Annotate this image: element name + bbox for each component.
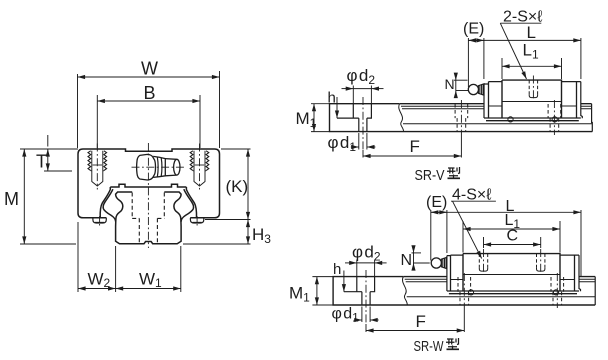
svg-text:2-S×ℓ: 2-S×ℓ [503, 9, 542, 26]
block cavity top [110, 184, 186, 187]
dim W2 W1 [78, 222, 181, 292]
svg-text:h: h [333, 261, 341, 278]
end caps SR-W [451, 255, 575, 291]
groove lip curve right [181, 189, 194, 222]
dim M [20, 149, 78, 244]
dim E and L shared line W [431, 210, 581, 276]
rail side lower groove line W [407, 296, 596, 298]
dim N (SR-V) [454, 74, 468, 98]
dim h (SR-V) [336, 97, 338, 118]
rail counterbore section [337, 104, 371, 118]
seal plug bucket right [190, 218, 203, 223]
svg-text:SR-W: SR-W [414, 338, 445, 355]
dim L1 [502, 58, 562, 79]
end seals SR-W [447, 255, 581, 291]
dim T [44, 135, 72, 171]
svg-text:φd2: φd2 [352, 243, 381, 264]
dim H3 [183, 220, 251, 245]
rail cross-section [116, 192, 182, 244]
svg-text:φd2: φd2 [347, 66, 376, 87]
dim E and L shared line [468, 38, 581, 87]
rail sectioned part W [333, 277, 595, 305]
svg-text:L: L [527, 23, 536, 42]
svg-text:C: C [507, 228, 519, 245]
svg-text:W1: W1 [139, 270, 162, 291]
dim F (SR-W) [366, 305, 464, 332]
rail side view top lines [400, 103, 592, 105]
hidden rail bolt hole 1 W [458, 277, 471, 305]
svg-text:B: B [144, 83, 156, 103]
svg-text:H3: H3 [252, 225, 271, 246]
dim phi-d1 (SR-W) [354, 307, 379, 323]
retainer screws [508, 117, 513, 122]
block outline [78, 149, 220, 218]
dim phi-d2 (SR-W) [345, 260, 387, 277]
hidden rail bolt hole 2 W [551, 277, 564, 305]
tapped hole S2 on block top W [537, 249, 545, 274]
rail right end W [594, 277, 596, 305]
svg-text:N: N [401, 252, 413, 269]
retainer screws W [468, 290, 473, 295]
rail break curve [399, 104, 404, 132]
svg-text:W: W [141, 59, 158, 79]
rail bolt hole hidden (front) [132, 193, 164, 244]
dim N (SR-W) [412, 246, 430, 269]
rail side lower groove line [403, 123, 592, 125]
leg inner boundary left [100, 187, 110, 218]
hidden rail bolt hole 2 [548, 104, 561, 131]
dim phi-d2 (SR-V) [342, 86, 384, 104]
svg-text:L1: L1 [523, 41, 539, 62]
block body SR-V [502, 80, 562, 118]
leader 2-Sxl [500, 23, 541, 79]
svg-text:φd1: φd1 [332, 306, 360, 325]
dim F (SR-V) [363, 132, 461, 158]
seal plug bucket left [93, 218, 106, 223]
leg inner boundary right [186, 187, 196, 218]
svg-text:F: F [416, 312, 426, 331]
kanji KATA (type) for SR-V [447, 167, 460, 178]
svg-text:h: h [328, 89, 336, 106]
dim B [97, 95, 200, 148]
groove lip curve left [103, 189, 116, 222]
svg-text:M1: M1 [296, 109, 317, 130]
dim h (SR-W) [343, 271, 345, 292]
tapped hole S on block top [529, 76, 537, 101]
block body SR-W [463, 254, 560, 291]
svg-text:W2: W2 [88, 270, 111, 291]
grease nipple SR-V [468, 84, 478, 94]
dim L1 W [463, 221, 560, 253]
tapped hole S1 on block top W [479, 249, 487, 274]
SR-V labels [296, 9, 543, 185]
svg-text:SR-V: SR-V [415, 167, 445, 184]
svg-text:N: N [445, 76, 455, 92]
center vertical axis [147, 143, 149, 248]
front view labels [4, 59, 271, 291]
block bottom + seal plate [484, 118, 581, 121]
svg-text:M: M [4, 189, 19, 209]
svg-text:(E): (E) [426, 194, 447, 211]
rail right end [591, 104, 594, 132]
end seals SR-V [484, 82, 582, 119]
block bottom + seal plate W [447, 291, 579, 294]
dim W [78, 71, 220, 148]
dim C W [484, 237, 541, 248]
rail counterbore section W [344, 277, 375, 292]
bolt hole centerline W [365, 270, 367, 324]
grease nipple front [137, 154, 156, 180]
leader 4-Sxl W [451, 201, 496, 258]
nipple horizontal axis [132, 166, 186, 168]
svg-text:φd1: φd1 [328, 133, 357, 154]
svg-text:(E): (E) [463, 21, 484, 38]
kanji KATA (type) for SR-W [446, 338, 459, 349]
rail sectioned part [330, 104, 593, 132]
grease nipple SR-W [431, 258, 441, 268]
dim M1 (SR-V) [311, 104, 330, 132]
dim phi-d1 (SR-V) [351, 133, 376, 150]
hidden rail bolt hole 1 [455, 104, 468, 131]
rail side view top lines W [404, 276, 596, 278]
svg-text:(K): (K) [226, 177, 249, 196]
dim M1 (SR-W) [312, 277, 333, 305]
rail bolt through hole section [359, 118, 367, 132]
svg-text:M1: M1 [289, 284, 310, 305]
bolt hole centerline [362, 97, 364, 150]
rail break curve W [402, 277, 407, 305]
end caps SR-V [489, 82, 577, 118]
dim K [205, 149, 251, 220]
tapped hole right (front) [190, 144, 209, 190]
svg-text:T: T [36, 152, 47, 172]
svg-text:F: F [410, 137, 420, 156]
rail bolt through hole section W [362, 292, 370, 305]
svg-text:4-S×ℓ: 4-S×ℓ [452, 187, 491, 204]
tapped hole left (front) [88, 144, 107, 190]
SR-W labels [289, 187, 520, 356]
